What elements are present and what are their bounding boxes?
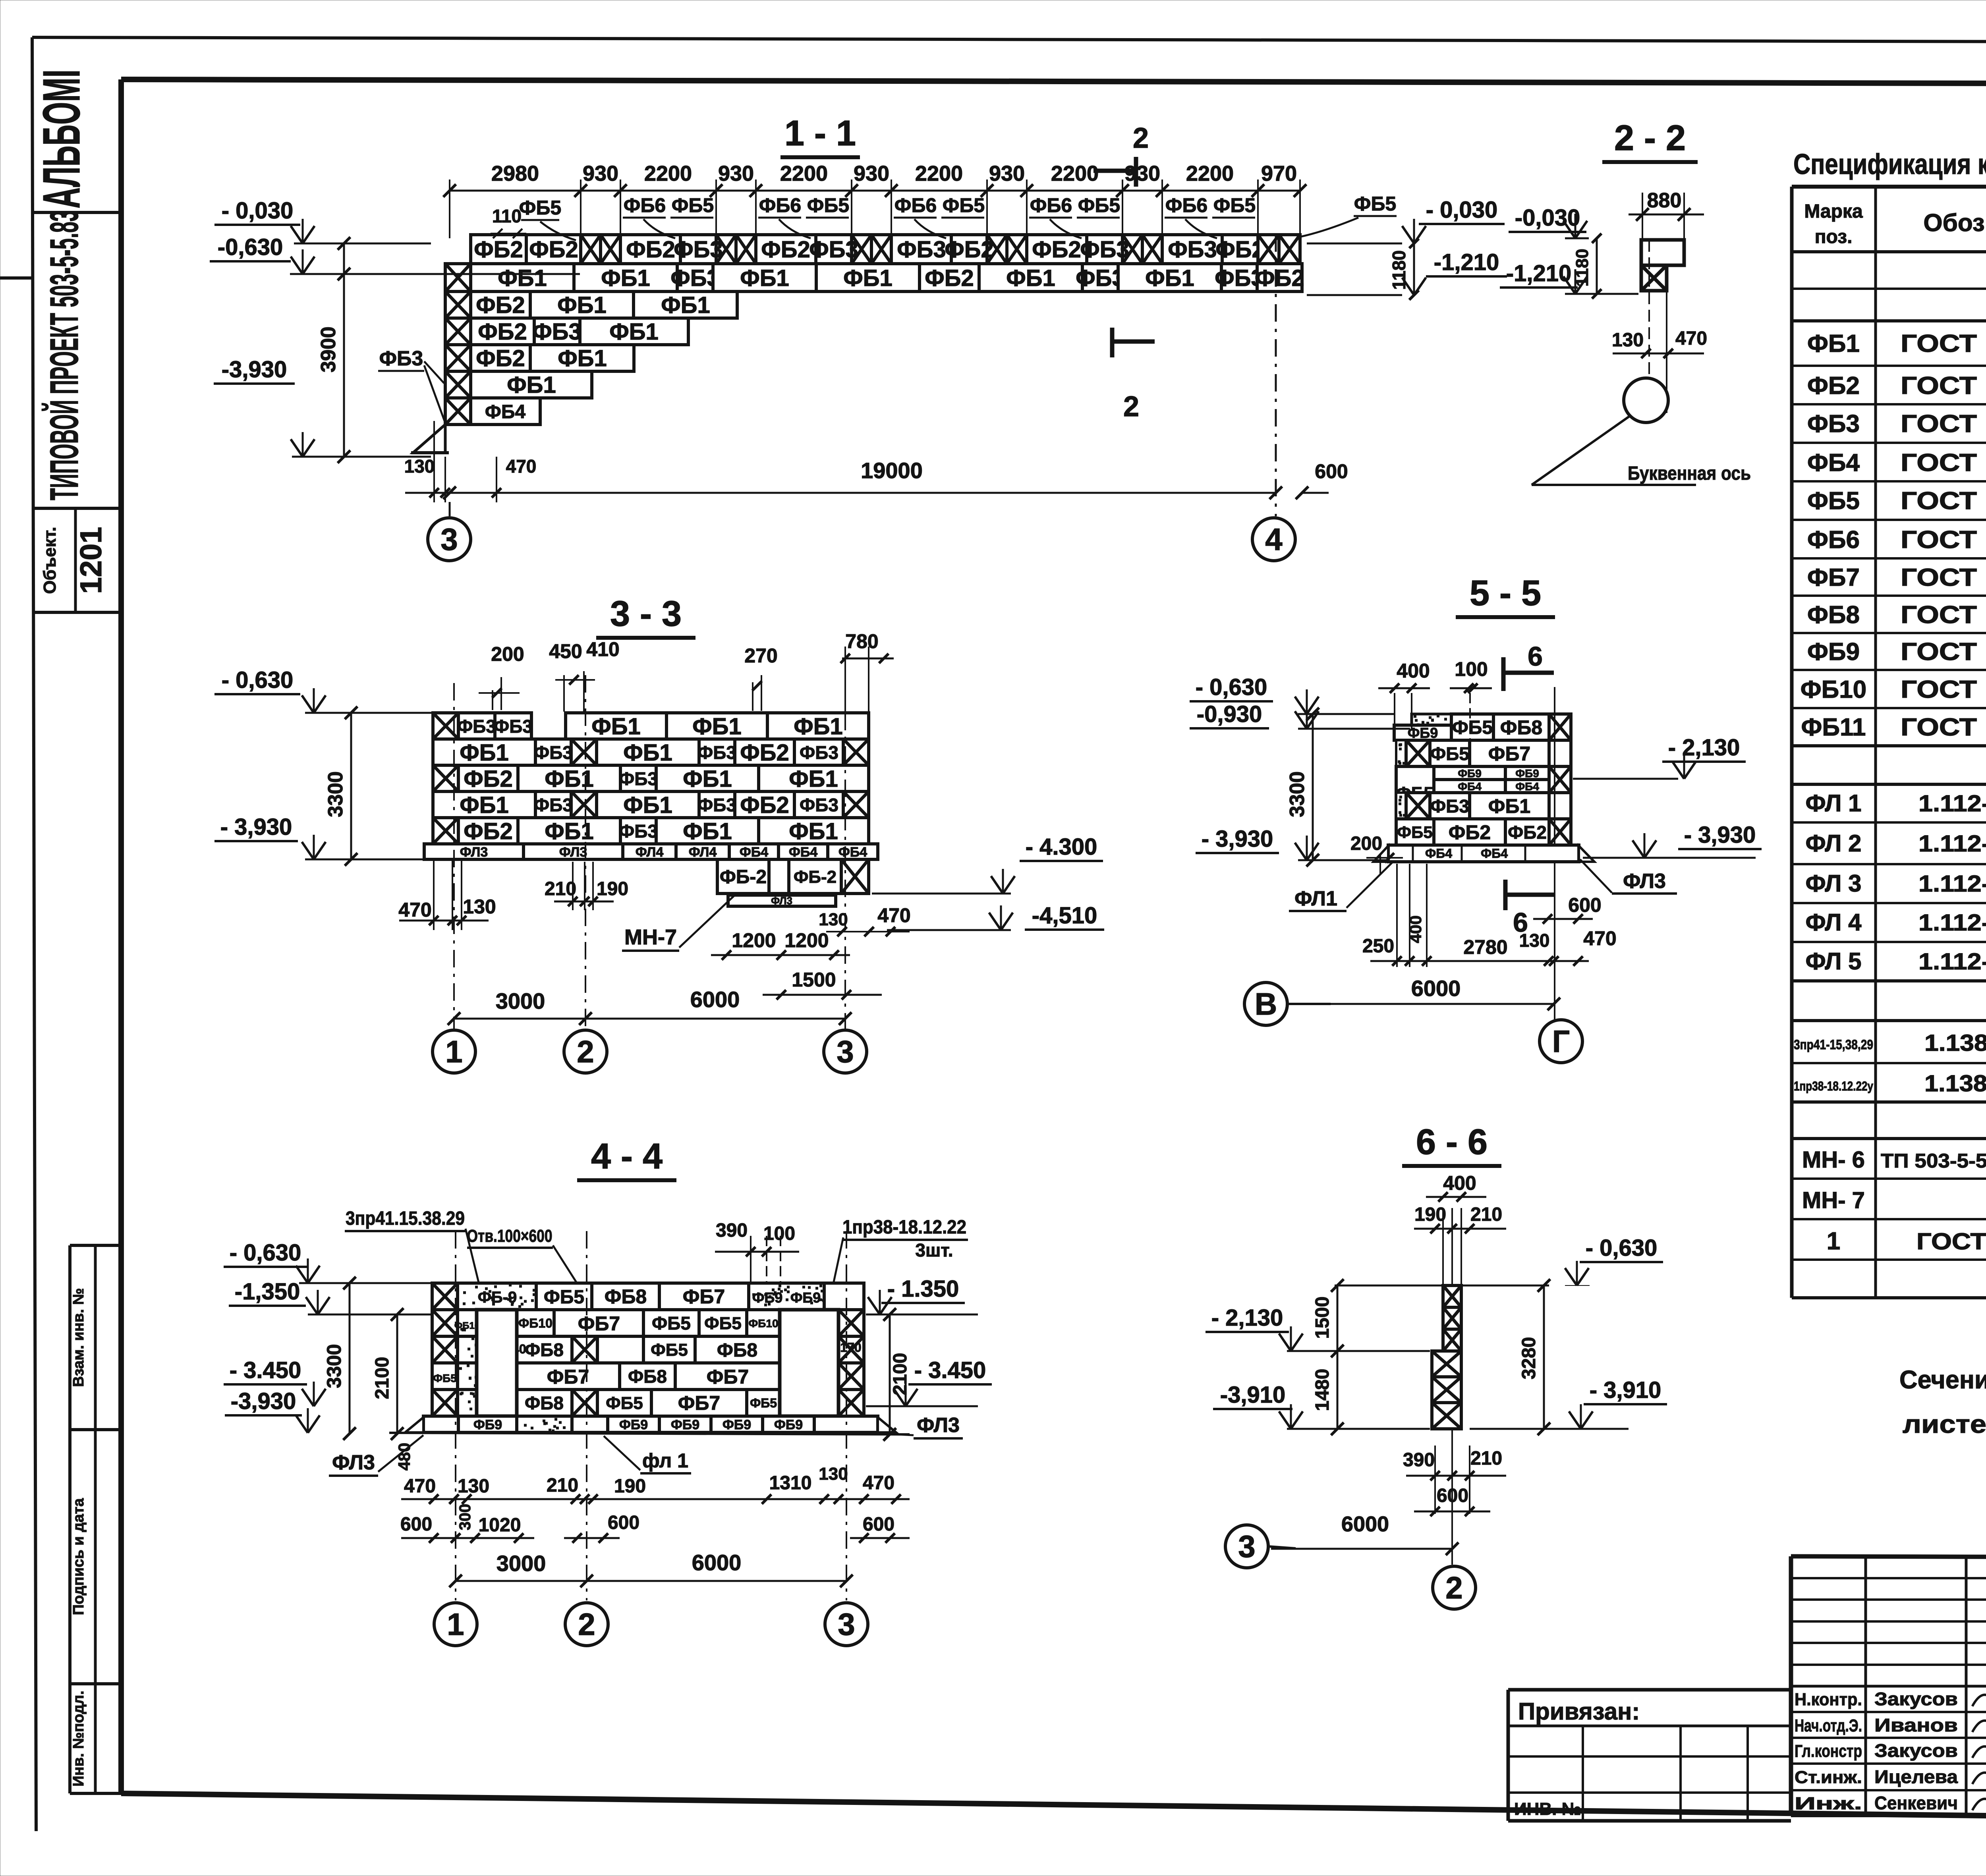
svg-text:ФБ9: ФБ9: [1807, 638, 1860, 666]
svg-text:ФБ9: ФБ9: [752, 1289, 783, 1306]
svg-text:930: 930: [989, 162, 1025, 185]
svg-text:130: 130: [458, 1476, 489, 1497]
svg-text:400: 400: [1406, 915, 1425, 943]
svg-text:- 3.450: - 3.450: [914, 1357, 986, 1383]
svg-text:1500: 1500: [1312, 1297, 1333, 1339]
svg-text:ФБ2: ФБ2: [945, 237, 993, 262]
svg-text:ФБ4: ФБ4: [838, 845, 867, 860]
svg-text:3пр41-15,38,29: 3пр41-15,38,29: [1794, 1037, 1873, 1052]
svg-text:ФБ3: ФБ3: [1807, 410, 1860, 438]
svg-text:- 3,930: - 3,930: [220, 814, 292, 840]
svg-text:ФБ-2: ФБ-2: [720, 867, 767, 888]
svg-text:ФБ3: ФБ3: [800, 742, 838, 763]
svg-text:ФБ3: ФБ3: [619, 821, 658, 841]
svg-text:3 - 3: 3 - 3: [610, 594, 682, 634]
svg-text:ФБ2: ФБ2: [529, 237, 578, 262]
svg-text:ФБ9: ФБ9: [723, 1417, 751, 1432]
svg-text:ФБ6: ФБ6: [1165, 194, 1207, 216]
svg-text:ФБ6: ФБ6: [624, 194, 666, 216]
svg-text:ФБ10: ФБ10: [518, 1316, 553, 1330]
svg-text:930: 930: [1124, 162, 1160, 185]
svg-text:ФБ1: ФБ1: [498, 265, 547, 291]
svg-text:2200: 2200: [915, 162, 963, 185]
svg-text:250: 250: [1362, 936, 1394, 957]
svg-text:1480: 1480: [1312, 1369, 1333, 1411]
svg-text:1180: 1180: [1389, 250, 1409, 290]
svg-text:ТП 503-5-5.83 -КЖИ МН6: ТП 503-5-5.83 -КЖИ МН6: [1881, 1150, 1986, 1172]
svg-text:6000: 6000: [690, 987, 740, 1012]
svg-text:3шт.: 3шт.: [915, 1240, 953, 1260]
svg-text:ФБ1: ФБ1: [1006, 265, 1055, 291]
svg-text:ФБ5: ФБ5: [1807, 487, 1860, 515]
svg-text:ФБ2: ФБ2: [1807, 372, 1860, 400]
svg-text:470: 470: [398, 899, 431, 921]
svg-text:190: 190: [597, 878, 628, 899]
svg-text:ФБ1: ФБ1: [789, 818, 838, 844]
svg-text:Сечения 1-1÷6-6 замаркирован: Сечения 1-1÷6-6 замаркированы на: [1899, 1365, 1986, 1394]
svg-text:-1,210: -1,210: [1434, 249, 1499, 275]
svg-text:ФБ5: ФБ5: [1213, 194, 1256, 216]
svg-text:ФЛ1: ФЛ1: [1294, 887, 1337, 910]
svg-text:ФБ4: ФБ4: [1458, 780, 1482, 793]
svg-text:410: 410: [586, 638, 619, 660]
svg-text:ФБ3: ФБ3: [1430, 796, 1469, 816]
svg-text:1.112-5 Вып.1: 1.112-5 Вып.1: [1918, 949, 1986, 975]
svg-text:Закусов: Закусов: [1874, 1740, 1958, 1761]
svg-text:ФБ6: ФБ6: [759, 194, 801, 216]
svg-text:ФБ11: ФБ11: [1801, 714, 1866, 741]
svg-text:6000: 6000: [1411, 976, 1461, 1001]
svg-text:300: 300: [456, 1504, 474, 1531]
svg-text:130: 130: [819, 910, 848, 929]
svg-text:ФБ3: ФБ3: [619, 768, 658, 789]
svg-text:ФБ3: ФБ3: [697, 742, 736, 763]
svg-text:6 - 6: 6 - 6: [1416, 1122, 1488, 1162]
svg-text:фл 1: фл 1: [642, 1449, 688, 1472]
svg-text:100: 100: [763, 1223, 795, 1244]
svg-text:ФБ4: ФБ4: [1807, 449, 1860, 477]
svg-text:3пр41.15.38.29: 3пр41.15.38.29: [346, 1208, 465, 1229]
svg-text:6000: 6000: [1341, 1512, 1389, 1536]
svg-text:ФБ10: ФБ10: [1801, 676, 1866, 703]
svg-text:1500: 1500: [792, 969, 836, 991]
svg-text:2: 2: [1133, 122, 1149, 154]
svg-text:-4,510: -4,510: [1032, 903, 1097, 928]
svg-text:ФБ1: ФБ1: [460, 740, 508, 766]
svg-text:- 0,630: - 0,630: [1196, 674, 1267, 700]
svg-text:19000: 19000: [861, 458, 923, 483]
svg-text:1: 1: [1827, 1228, 1840, 1255]
svg-text:ФБ3: ФБ3: [532, 319, 581, 345]
svg-text:ФБ3: ФБ3: [697, 795, 736, 815]
svg-text:ФЛ3: ФЛ3: [917, 1414, 960, 1437]
svg-text:ФБ4: ФБ4: [740, 845, 768, 860]
svg-text:1310: 1310: [769, 1473, 812, 1494]
svg-text:Г: Г: [1552, 1024, 1570, 1059]
svg-text:Ицелева: Ицелева: [1874, 1766, 1958, 1787]
svg-text:поз.: поз.: [1815, 226, 1853, 247]
svg-text:ФБ5: ФБ5: [1078, 194, 1120, 216]
svg-text:ФБ2: ФБ2: [740, 740, 789, 766]
svg-text:390: 390: [716, 1220, 748, 1241]
svg-text:170: 170: [840, 1340, 861, 1355]
svg-text:470: 470: [404, 1476, 436, 1497]
svg-text:Гл.констр: Гл.констр: [1795, 1741, 1862, 1761]
svg-text:ФБ1: ФБ1: [661, 292, 710, 318]
svg-text:600: 600: [608, 1512, 639, 1533]
svg-text:400: 400: [1443, 1172, 1476, 1194]
svg-text:Иванов: Иванов: [1874, 1715, 1958, 1735]
svg-text:ФЛ3: ФЛ3: [771, 895, 792, 907]
svg-text:-1,210: -1,210: [1506, 261, 1571, 286]
svg-text:100: 100: [1455, 658, 1488, 680]
svg-text:130: 130: [463, 896, 496, 918]
svg-text:470: 470: [1675, 328, 1707, 349]
svg-text:ГОСТ 13579-78: ГОСТ 13579-78: [1901, 449, 1986, 477]
svg-text:ФЛ 5: ФЛ 5: [1805, 948, 1861, 975]
svg-text:ФБ3: ФБ3: [1168, 237, 1217, 262]
svg-text:ФБ8: ФБ8: [1807, 601, 1860, 629]
svg-text:-0,030: -0,030: [1515, 205, 1580, 231]
svg-text:1.112-5 Вып.1: 1.112-5 Вып.1: [1918, 910, 1986, 936]
svg-text:ФБ9: ФБ9: [774, 1417, 803, 1432]
svg-text:ФБ9: ФБ9: [671, 1417, 699, 1432]
svg-text:ФБ1: ФБ1: [1807, 330, 1860, 357]
svg-text:1.112-5 Вып.1: 1.112-5 Вып.1: [1918, 831, 1986, 857]
svg-text:ФБ8: ФБ8: [628, 1366, 667, 1387]
svg-text:470: 470: [863, 1473, 894, 1494]
svg-text:ГОСТ 1839-80: ГОСТ 1839-80: [1916, 1229, 1986, 1255]
svg-text:ФБ5: ФБ5: [672, 194, 714, 216]
svg-text:-3,930: -3,930: [231, 1388, 296, 1414]
svg-text:2200: 2200: [780, 162, 828, 185]
svg-text:470: 470: [506, 456, 537, 477]
svg-text:1: 1: [447, 1607, 464, 1642]
svg-text:2100: 2100: [372, 1357, 393, 1399]
svg-text:ФБ9: ФБ9: [1515, 767, 1539, 780]
svg-text:200: 200: [1350, 833, 1382, 854]
svg-text:ФБ2: ФБ2: [1255, 265, 1304, 291]
svg-text:1.112-5 Вып.1: 1.112-5 Вып.1: [1918, 871, 1986, 897]
svg-text:ГОСТ 13579-78: ГОСТ 13579-78: [1901, 601, 1986, 629]
svg-text:3280: 3280: [1518, 1337, 1540, 1380]
svg-text:- 0,630: - 0,630: [222, 667, 294, 693]
svg-text:ФБ7: ФБ7: [1807, 564, 1860, 591]
svg-text:Н.контр.: Н.контр.: [1795, 1690, 1862, 1709]
svg-text:3: 3: [1238, 1529, 1255, 1564]
svg-text:ФБ9: ФБ9: [1458, 767, 1482, 780]
svg-text:6000: 6000: [692, 1550, 742, 1575]
svg-text:- 0,630: - 0,630: [230, 1240, 301, 1266]
svg-text:ГОСТ 13579-78: ГОСТ 13579-78: [1901, 638, 1986, 666]
svg-text:В: В: [1255, 986, 1277, 1021]
svg-text:ФБ1: ФБ1: [1488, 795, 1530, 817]
svg-text:3: 3: [838, 1607, 855, 1642]
svg-text:ФБ1: ФБ1: [601, 265, 650, 291]
svg-text:ФБ9: ФБ9: [790, 1289, 821, 1306]
svg-text:-3,910: -3,910: [1220, 1382, 1285, 1408]
svg-text:4 - 4: 4 - 4: [591, 1137, 663, 1176]
svg-text:ФБ5: ФБ5: [652, 1313, 691, 1334]
svg-text:3300: 3300: [323, 1344, 345, 1388]
svg-text:ФБ3: ФБ3: [1080, 237, 1129, 262]
svg-text:Объект.: Объект.: [40, 527, 60, 594]
svg-text:АЛЬБОМI: АЛЬБОМI: [32, 69, 91, 208]
svg-text:5 - 5: 5 - 5: [1470, 573, 1541, 613]
svg-text:МН- 7: МН- 7: [1802, 1187, 1865, 1213]
svg-text:ТИПОВОЙ ПРОЕКТ 503-5-5.83: ТИПОВОЙ ПРОЕКТ 503-5-5.83: [42, 210, 87, 500]
svg-text:ФБ1: ФБ1: [789, 766, 838, 792]
svg-text:Инж.: Инж.: [1795, 1794, 1862, 1813]
svg-text:780: 780: [845, 630, 878, 652]
svg-text:210: 210: [545, 878, 576, 899]
svg-text:ФБ1: ФБ1: [545, 818, 593, 844]
svg-text:- 3,910: - 3,910: [1590, 1377, 1661, 1403]
svg-text:ФБ2: ФБ2: [626, 237, 675, 262]
svg-text:400: 400: [1397, 660, 1430, 682]
svg-text:ФБ4: ФБ4: [1515, 780, 1539, 793]
svg-text:1.112-5 Вып.1: 1.112-5 Вып.1: [1918, 791, 1986, 816]
svg-text:600: 600: [1568, 894, 1601, 916]
svg-text:-3,930: -3,930: [222, 357, 287, 382]
svg-text:ФБ5: ФБ5: [651, 1340, 688, 1360]
svg-text:ФБ1: ФБ1: [609, 319, 658, 345]
svg-text:Закусов: Закусов: [1874, 1689, 1958, 1709]
svg-text:3: 3: [440, 522, 458, 557]
svg-text:ФБ1: ФБ1: [740, 265, 789, 291]
svg-text:ФЛ 2: ФЛ 2: [1805, 830, 1861, 857]
svg-text:ФБ1: ФБ1: [557, 292, 606, 318]
svg-text:-0,930: -0,930: [1197, 701, 1262, 727]
svg-text:ФБ2: ФБ2: [925, 265, 974, 291]
svg-text:130: 130: [1519, 930, 1550, 951]
svg-text:1пр38-18.12.22у: 1пр38-18.12.22у: [1794, 1079, 1873, 1093]
svg-text:ГОСТ 13579-78: ГОСТ 13579-78: [1901, 564, 1986, 591]
svg-text:Ст.инж.: Ст.инж.: [1795, 1768, 1862, 1787]
svg-text:-1,350: -1,350: [235, 1279, 300, 1305]
svg-text:ФБ4: ФБ4: [485, 401, 525, 423]
svg-text:130: 130: [1612, 330, 1644, 351]
svg-text:-0,630: -0,630: [218, 234, 283, 260]
svg-text:ГОСТ 13579-78: ГОСТ 13579-78: [1901, 330, 1986, 357]
svg-text:ГОСТ 13579-78: ГОСТ 13579-78: [1901, 487, 1986, 515]
svg-text:Нач.отд.Э.: Нач.отд.Э.: [1795, 1716, 1862, 1735]
svg-text:130: 130: [819, 1464, 848, 1484]
svg-text:ФБ6: ФБ6: [1030, 194, 1072, 216]
svg-text:2100: 2100: [890, 1353, 911, 1395]
svg-text:ФБ2: ФБ2: [1032, 237, 1081, 262]
svg-text:ФБ5: ФБ5: [807, 194, 849, 216]
svg-text:ФБ2: ФБ2: [464, 818, 512, 844]
svg-text:- 4.300: - 4.300: [1026, 834, 1097, 860]
svg-text:- 2,130: - 2,130: [1668, 735, 1740, 760]
svg-text:ФЛ4: ФЛ4: [689, 845, 717, 860]
svg-text:Инв. №подл.: Инв. №подл.: [70, 1691, 87, 1787]
svg-text:1200: 1200: [784, 929, 829, 952]
svg-text:ФБ2: ФБ2: [476, 292, 525, 318]
svg-text:ФБ4: ФБ4: [789, 845, 817, 860]
svg-text:ФБ1: ФБ1: [507, 372, 556, 398]
svg-text:470: 470: [877, 904, 910, 926]
svg-text:ФБ5: ФБ5: [943, 194, 985, 216]
svg-text:ФБ3: ФБ3: [494, 716, 533, 737]
svg-text:2200: 2200: [1051, 162, 1099, 185]
svg-text:ФБ3: ФБ3: [809, 237, 858, 262]
svg-text:ФБ1: ФБ1: [794, 714, 842, 739]
svg-text:3900: 3900: [317, 326, 340, 372]
svg-text:ФБ6: ФБ6: [894, 194, 937, 216]
svg-text:ФБ8: ФБ8: [525, 1393, 564, 1413]
svg-text:2: 2: [1123, 391, 1139, 423]
svg-text:ФБ7: ФБ7: [547, 1366, 589, 1388]
svg-text:ФБ5: ФБ5: [1452, 717, 1493, 738]
svg-text:930: 930: [718, 162, 754, 185]
svg-text:ФБ3: ФБ3: [534, 795, 573, 815]
svg-text:ГОСТ 13579-78: ГОСТ 13579-78: [1901, 714, 1986, 741]
svg-text:Отв.100×600: Отв.100×600: [467, 1226, 553, 1246]
svg-text:2: 2: [577, 1034, 594, 1069]
svg-text:- 3,930: - 3,930: [1202, 826, 1273, 852]
svg-text:ФБ7: ФБ7: [683, 1285, 725, 1308]
svg-text:ФБ8: ФБ8: [1500, 716, 1542, 739]
svg-text:2200: 2200: [1186, 162, 1234, 185]
svg-text:210: 210: [1470, 1448, 1502, 1469]
svg-text:ФБ9: ФБ9: [473, 1417, 502, 1432]
svg-text:ФЛ 1: ФЛ 1: [1805, 790, 1861, 816]
svg-text:ФБ-2: ФБ-2: [794, 867, 837, 887]
svg-text:2780: 2780: [1463, 936, 1507, 958]
svg-text:Буквенная ось: Буквенная ось: [1628, 463, 1751, 484]
svg-text:Подпись и дата: Подпись и дата: [70, 1498, 87, 1615]
svg-text:6: 6: [1528, 641, 1543, 672]
svg-text:ФБ5: ФБ5: [544, 1287, 584, 1308]
svg-text:4: 4: [1265, 522, 1282, 557]
svg-text:390: 390: [1403, 1449, 1435, 1471]
svg-text:2980: 2980: [491, 162, 539, 185]
svg-text:ФБ2: ФБ2: [464, 766, 512, 792]
svg-text:ФБ1: ФБ1: [558, 345, 607, 371]
svg-text:2 - 2: 2 - 2: [1614, 118, 1686, 158]
svg-text:3000: 3000: [496, 1551, 546, 1576]
svg-text:ФЛ3: ФЛ3: [559, 845, 587, 860]
svg-text:ФЛ 3: ФЛ 3: [1805, 870, 1861, 897]
svg-text:ФБ1: ФБ1: [545, 766, 593, 792]
svg-text:1 - 1: 1 - 1: [784, 114, 856, 153]
svg-text:ФБ8: ФБ8: [605, 1285, 647, 1308]
svg-text:ФБ7: ФБ7: [707, 1366, 749, 1388]
svg-text:ФБ5: ФБ5: [1354, 193, 1396, 215]
svg-text:3000: 3000: [496, 988, 545, 1013]
svg-text:2: 2: [1445, 1570, 1462, 1605]
svg-text:130: 130: [404, 456, 435, 477]
svg-text:880: 880: [1647, 189, 1682, 212]
svg-text:ИНВ. №: ИНВ. №: [1514, 1799, 1581, 1819]
svg-text:ФБ3: ФБ3: [897, 237, 946, 262]
svg-text:1.138-10. в. 3: 1.138-10. в. 3: [1924, 1030, 1986, 1056]
svg-text:470: 470: [1583, 927, 1616, 950]
svg-text:МН-7: МН-7: [624, 925, 677, 949]
svg-text:ФБ3: ФБ3: [674, 237, 723, 262]
svg-text:190: 190: [1414, 1204, 1446, 1225]
svg-text:ФБ5: ФБ5: [1397, 823, 1432, 841]
svg-text:ФБ1: ФБ1: [692, 714, 741, 739]
svg-text:ФБ5: ФБ5: [704, 1314, 742, 1333]
svg-text:ФБ1: ФБ1: [1145, 265, 1194, 291]
svg-text:930: 930: [854, 162, 889, 185]
svg-text:ГОСТ 13579-78: ГОСТ 13579-78: [1901, 526, 1986, 554]
svg-text:ФБ5: ФБ5: [433, 1372, 457, 1384]
svg-text:ФЛ3: ФЛ3: [1623, 870, 1666, 893]
svg-text:ФБ3: ФБ3: [379, 347, 423, 370]
svg-text:ФБ1: ФБ1: [623, 792, 672, 818]
svg-text:ФЛ4: ФЛ4: [636, 845, 664, 860]
svg-text:Спецификация к схеме распол: Спецификация к схеме расположения фундам…: [1793, 149, 1986, 180]
svg-text:ФБ1: ФБ1: [460, 792, 508, 818]
svg-text:- 0,030: - 0,030: [222, 198, 294, 224]
svg-text:2: 2: [578, 1607, 595, 1642]
svg-text:- 0,630: - 0,630: [1586, 1235, 1658, 1261]
svg-text:ФБ1: ФБ1: [623, 740, 672, 766]
svg-text:190: 190: [614, 1476, 646, 1497]
svg-text:ФБ3: ФБ3: [534, 742, 573, 763]
svg-text:Обозначение: Обозначение: [1923, 209, 1986, 237]
svg-text:- 1.350: - 1.350: [887, 1276, 959, 1302]
svg-text:ФБ9: ФБ9: [619, 1417, 648, 1432]
svg-text:- 3.450: - 3.450: [230, 1357, 301, 1383]
svg-text:ФБ4: ФБ4: [1481, 846, 1508, 861]
svg-text:ФБ5: ФБ5: [606, 1393, 643, 1413]
svg-text:ФБ4: ФБ4: [1425, 846, 1452, 861]
svg-text:ФБ2: ФБ2: [474, 237, 523, 262]
svg-text:ГОСТ 13579-78: ГОСТ 13579-78: [1901, 676, 1986, 703]
svg-text:ФБ3: ФБ3: [457, 716, 496, 737]
svg-text:листе КЖ-3.: листе КЖ-3.: [1903, 1410, 1986, 1438]
svg-text:ФБ5: ФБ5: [519, 197, 561, 219]
svg-text:ФЛ3: ФЛ3: [460, 845, 488, 860]
svg-text:- 0,030: - 0,030: [1426, 197, 1498, 223]
svg-text:ФБ2: ФБ2: [1449, 821, 1491, 843]
svg-text:МН- 6: МН- 6: [1802, 1147, 1865, 1173]
svg-text:ГОСТ 13579-78: ГОСТ 13579-78: [1901, 372, 1986, 400]
svg-text:3: 3: [837, 1034, 854, 1069]
svg-text:600: 600: [400, 1514, 432, 1535]
svg-text:3300: 3300: [324, 771, 347, 817]
svg-text:450: 450: [549, 640, 582, 662]
svg-text:Взам. инв. №: Взам. инв. №: [70, 1288, 87, 1387]
svg-text:270: 270: [744, 645, 777, 667]
svg-text:ФБ5: ФБ5: [750, 1396, 777, 1410]
svg-text:ФБ1: ФБ1: [843, 265, 892, 291]
svg-text:ФБ8: ФБ8: [717, 1340, 757, 1361]
svg-text:210: 210: [1470, 1204, 1502, 1225]
svg-text:970: 970: [1261, 162, 1297, 185]
svg-text:ФБ7: ФБ7: [578, 1312, 620, 1335]
svg-text:200: 200: [491, 643, 524, 665]
svg-text:ФБ6: ФБ6: [1807, 526, 1860, 554]
svg-text:ФБ7: ФБ7: [678, 1392, 720, 1414]
svg-text:1пр38-18.12.22: 1пр38-18.12.22: [842, 1217, 966, 1238]
svg-text:ФБ2: ФБ2: [476, 345, 525, 371]
svg-text:- 2,130: - 2,130: [1211, 1305, 1283, 1331]
svg-text:600: 600: [863, 1514, 894, 1535]
svg-text:ФБ10: ФБ10: [748, 1317, 778, 1330]
svg-text:ФБ7: ФБ7: [1488, 743, 1530, 765]
svg-text:210: 210: [547, 1475, 578, 1496]
svg-text:1020: 1020: [479, 1515, 521, 1536]
svg-text:930: 930: [583, 162, 618, 185]
svg-text:ФЛ 4: ФЛ 4: [1805, 909, 1862, 936]
svg-text:ФБ3: ФБ3: [800, 795, 838, 815]
